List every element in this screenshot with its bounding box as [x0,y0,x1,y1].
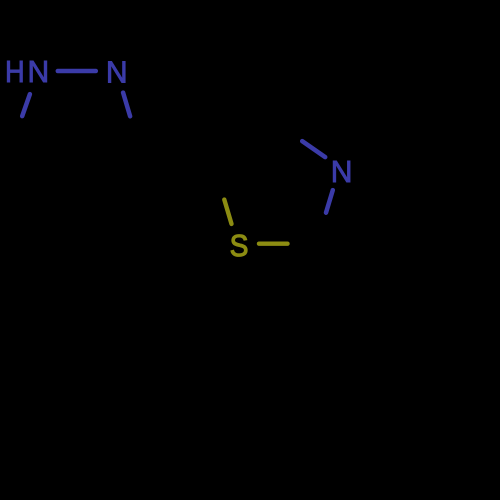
svg-text:N: N [106,55,128,90]
svg-text:S: S [230,228,249,263]
svg-text:H: H [5,55,25,89]
svg-text:N: N [331,155,353,190]
svg-text:N: N [28,55,50,90]
